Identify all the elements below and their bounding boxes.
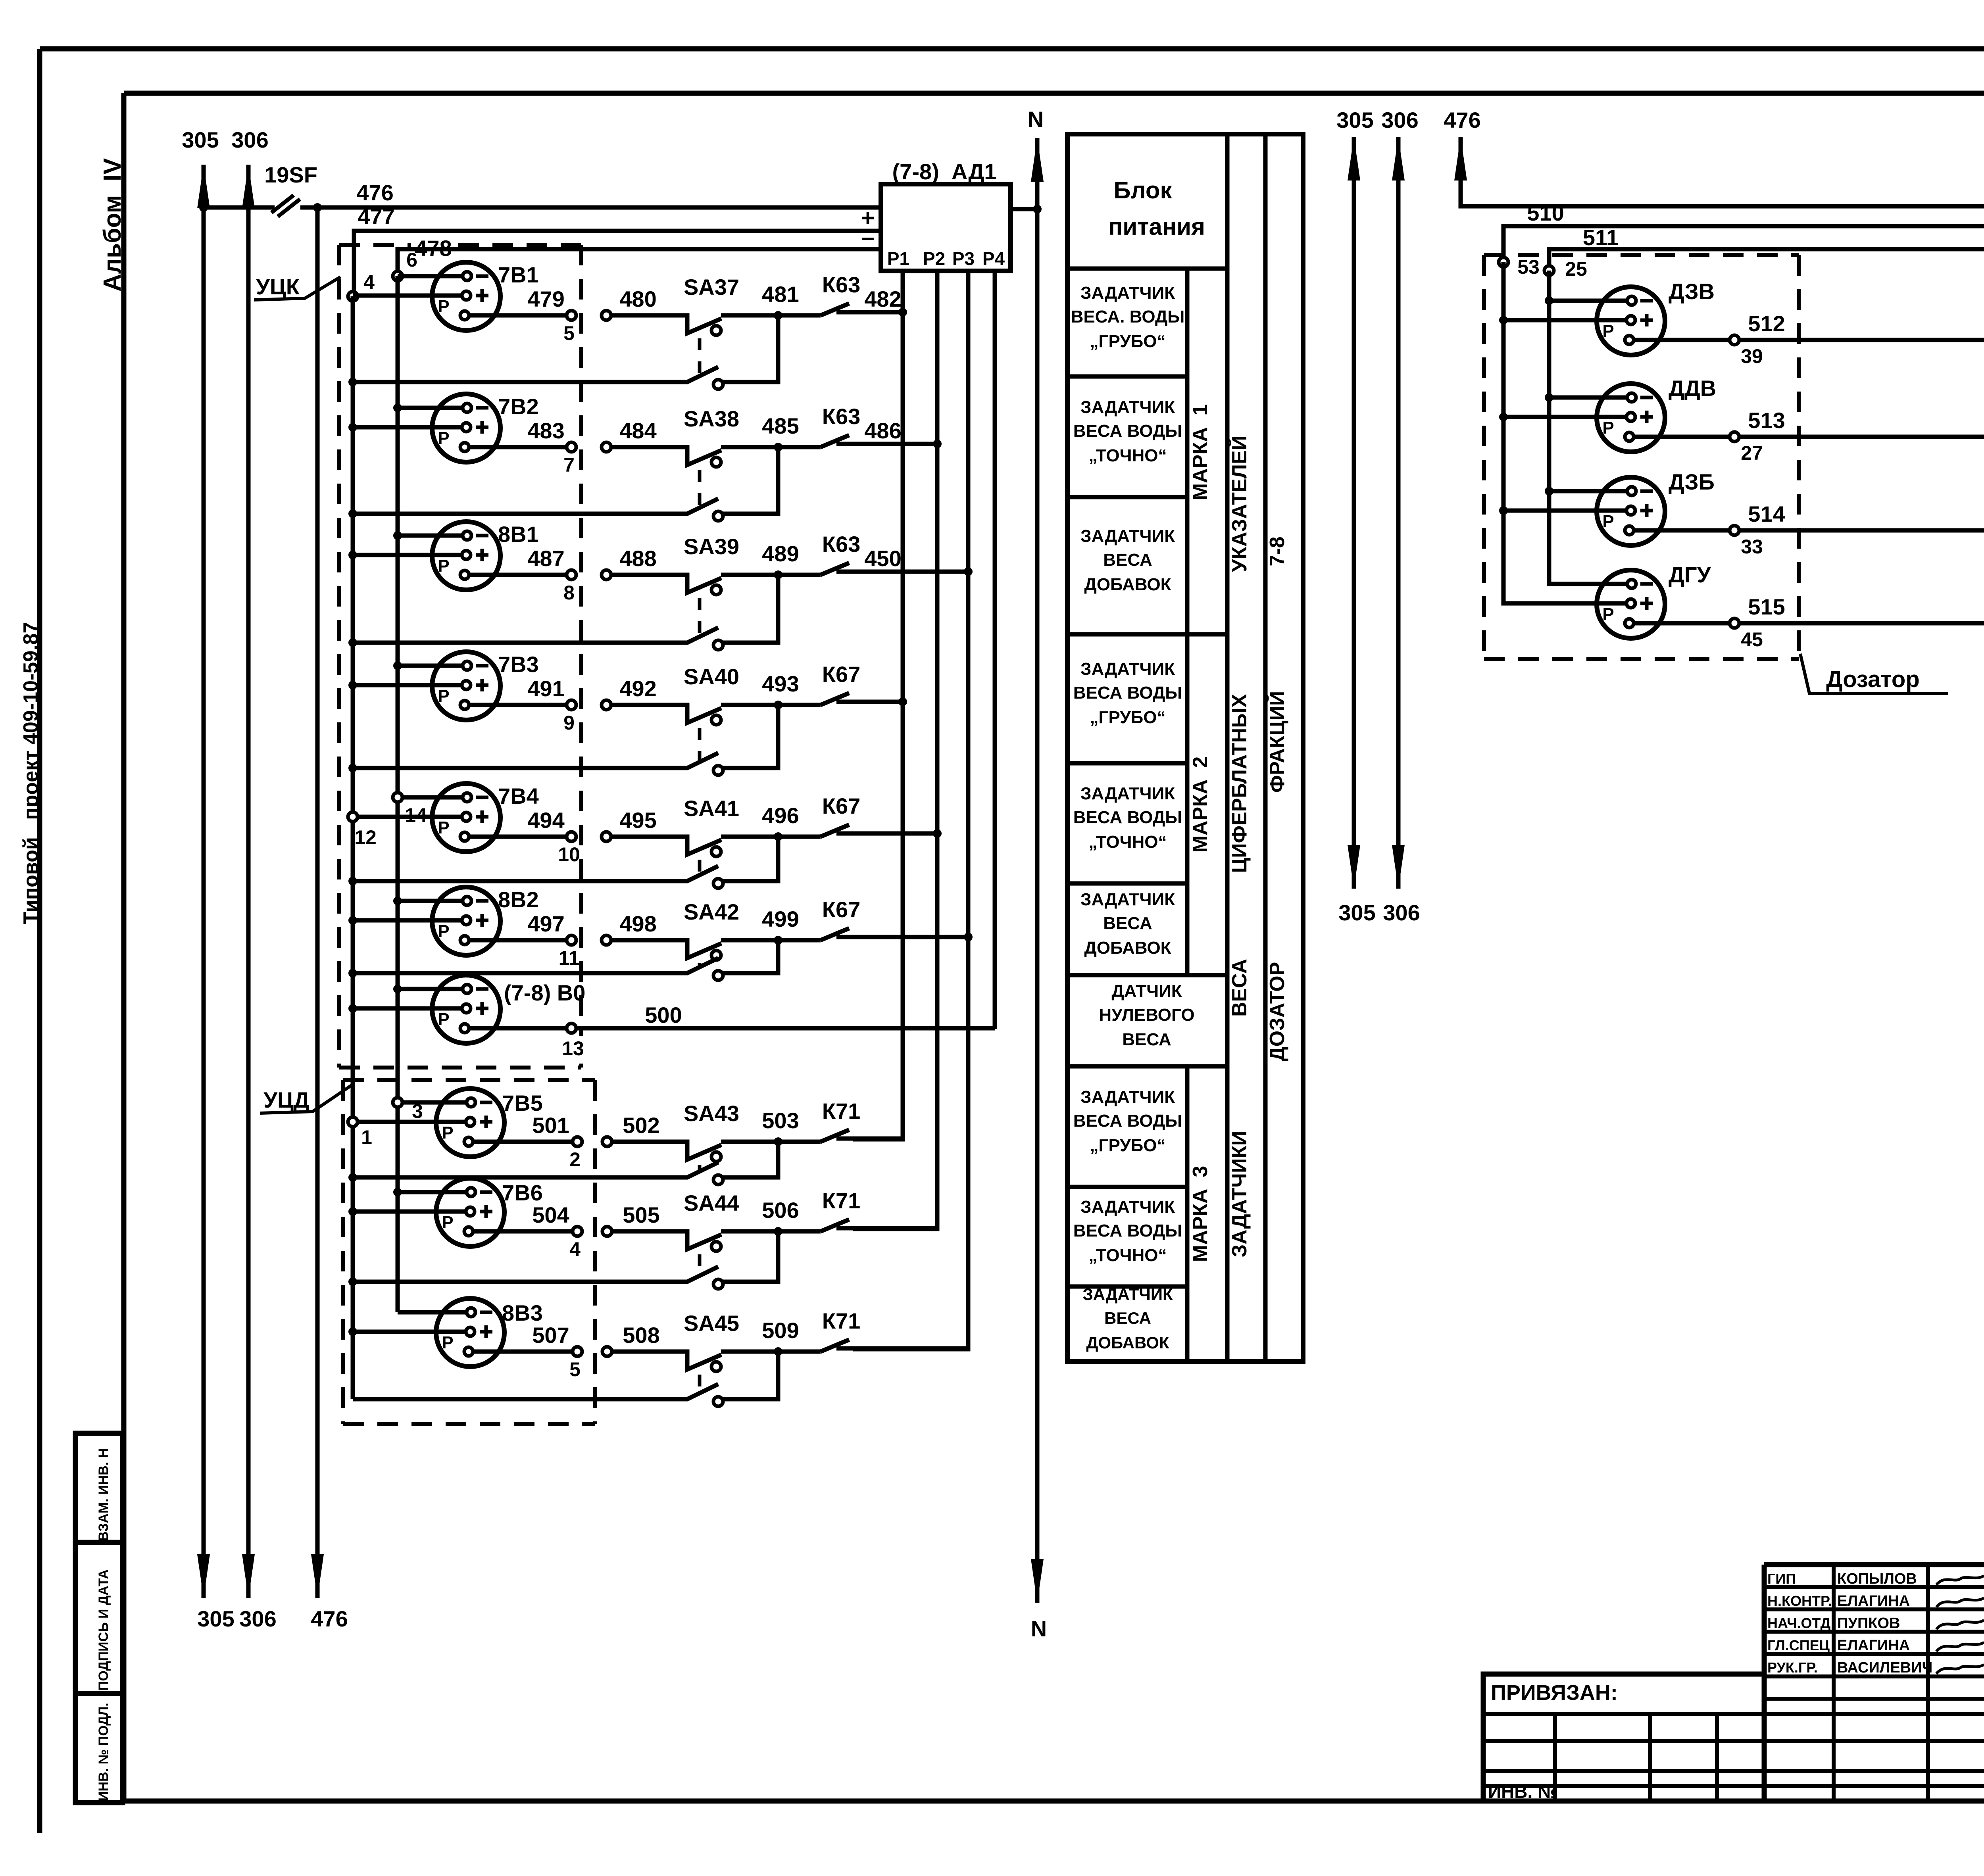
wire 492 [602,676,657,710]
svg-text:МАРКА 1: МАРКА 1 [1189,404,1212,501]
svg-text:ДОБАВОК: ДОБАВОК [1084,575,1171,594]
svg-text:Р: Р [438,818,449,837]
wire &#1050;71 output to P line [854,1226,937,1231]
wire plus of 7&#1042;2 [353,425,462,430]
svg-text:500: 500 [645,1002,682,1027]
wire &#1050;63 output to P line [854,570,968,574]
svg-text:–: – [861,224,874,250]
wire 515 (&#1044;&#1043;&#1059; P to AD2) [1634,273,1984,651]
wire &#1050;71 output to P line [854,1346,968,1351]
svg-text:492: 492 [619,676,656,701]
node aux branch 7&#1042;1 [348,378,357,386]
svg-text:К71: К71 [822,1098,860,1123]
svg-text:Р: Р [442,1333,453,1352]
wire plus of 8&#1042;2 [353,918,462,923]
terminal 3 [393,1098,402,1107]
wire 504 (7&#1042;6 P to terminal 4) [473,1202,582,1260]
wire plus of 8&#1042;1 [353,553,462,557]
svg-text:ДОЗАТОР: ДОЗАТОР [1266,962,1289,1062]
wire 305 (left riser) [182,127,234,1631]
svg-text:ВЕСА: ВЕСА [1103,550,1152,570]
svg-text:485: 485 [762,413,799,438]
svg-text:К63: К63 [822,532,860,557]
svg-text:514: 514 [1748,501,1785,526]
svg-text:8В3: 8В3 [502,1300,543,1325]
svg-text:499: 499 [762,906,799,931]
label Dozator with leader [1800,654,1948,693]
svg-text:„ТОЧНО“: „ТОЧНО“ [1088,832,1167,852]
svg-text:К67: К67 [822,897,860,922]
signature table [1764,1565,1984,1801]
wire plus of 8&#1042;3 [353,1330,466,1334]
shield wire 478 / UCK dashed enclosure [339,236,581,1068]
wire minus of 7&#1042;2 [398,406,463,410]
wire plus of &#1044;&#1047;&#1042; [1503,318,1626,323]
wire 501 (7&#1042;5 P to terminal 2) [473,1113,582,1171]
svg-text:ИНВ. № ПОДЛ.: ИНВ. № ПОДЛ. [96,1703,111,1801]
svg-text:Дозатор: Дозатор [1826,666,1920,692]
wire plus of 7&#1042;4 [353,815,462,819]
svg-text:ВЕСА ВОДЫ: ВЕСА ВОДЫ [1073,683,1182,703]
svg-text:SA43: SA43 [684,1101,739,1126]
wire 483 (7&#1042;2 P to terminal 7) [469,418,576,476]
wire minus of &#1044;&#1047;&#1041; [1549,489,1627,493]
wire 306 (left riser) [231,127,276,1631]
switch SA41 upper contact [611,796,777,856]
svg-text:ВЕСА ВОДЫ: ВЕСА ВОДЫ [1073,1221,1182,1240]
svg-text:К63: К63 [822,404,860,429]
node junction 481 [774,311,782,320]
wire 476 (right riser to AD2) [1444,108,1984,206]
switch SA45 upper contact [611,1311,777,1371]
wire 513 (&#1044;&#1044;&#1042; P to AD2) [1634,273,1984,464]
sensor (7-8) &#1042;0 [432,975,585,1043]
svg-text:РУК.ГР.: РУК.ГР. [1767,1659,1818,1676]
svg-text:SA37: SA37 [684,275,739,300]
wire 505 [602,1202,660,1236]
svg-text:ГЛ.СПЕЦ: ГЛ.СПЕЦ [1767,1637,1830,1653]
svg-text:480: 480 [619,286,656,311]
switch SA39 lower contact [353,575,778,650]
wire 494 (7&#1042;4 P to terminal 10) [469,808,580,866]
wire plus of B0 [353,1006,462,1011]
svg-text:ДЗБ: ДЗБ [1669,469,1715,494]
wire 510 [1503,200,1984,262]
svg-text:ДГУ: ДГУ [1669,562,1711,587]
svg-text:7В3: 7В3 [498,652,539,677]
switch SA41 mechanical link [698,860,702,876]
switch SA42 mechanical link [698,963,702,968]
switch SA37 lower contact [353,315,778,389]
wire 498 [602,911,657,945]
switch SA42 lower contact [353,940,778,980]
terminal 25 [1544,266,1554,275]
wire minus of &#1044;&#1047;&#1042; [1549,299,1627,303]
privyazan area [1483,1681,1984,1802]
wire plus of 7&#1042;6 [353,1210,466,1214]
wire 487 (8&#1042;1 P to terminal 8) [469,546,576,604]
svg-text:ЗАДАТЧИК: ЗАДАТЧИК [1080,784,1175,803]
svg-text:515: 515 [1748,594,1785,619]
svg-text:Р: Р [442,1123,453,1142]
svg-text:НАЧ.ОТД: НАЧ.ОТД [1767,1615,1830,1631]
unit AD1 [861,159,1011,271]
title block outline [1483,1565,1984,1801]
svg-text:502: 502 [623,1113,659,1138]
wire &#1050;67 output to P line [854,935,968,939]
switch SA37 mechanical link [698,338,702,376]
svg-text:SA40: SA40 [684,664,739,689]
svg-text:ЕЛАГИНА: ЕЛАГИНА [1837,1593,1910,1609]
bus A vertical (sensor + feed) [351,296,355,1399]
wire 508 [602,1323,660,1356]
node aux branch 7&#1042;6 [348,1277,357,1286]
terminal 53 [1499,257,1508,267]
svg-text:305: 305 [1338,900,1375,925]
wire 476 horizontal bus [204,180,881,207]
svg-text:511: 511 [1583,225,1619,250]
switch SA39 mechanical link [698,598,702,637]
sensor 7&#1042;6 [436,1178,543,1246]
svg-text:19SF: 19SF [264,162,317,187]
svg-text:Р: Р [442,1213,453,1232]
svg-text:486: 486 [864,418,901,443]
wire 484 [602,418,657,452]
svg-text:33: 33 [1741,536,1763,558]
wire minus of 8&#1042;3 [398,1310,467,1315]
terminal 1 [348,1117,358,1127]
node aux branch 7&#1042;5 [348,1173,357,1182]
svg-text:8: 8 [563,582,575,604]
node junction 496 [774,832,782,841]
wire AD1 to N [1011,207,1037,211]
wire minus of 7&#1042;4 [398,795,463,800]
svg-text:ВЕСА: ВЕСА [1104,1309,1151,1327]
wire 500 (B0 P to P4) [469,1002,995,1060]
node junction 493 [774,701,782,709]
switch SA45 lower contact [353,1352,778,1406]
svg-text:482: 482 [864,286,901,311]
contact &#1050;63 [778,532,860,575]
svg-text:5: 5 [569,1358,581,1381]
wire minus of 7&#1042;1 [398,274,463,278]
wire 495 [602,808,657,841]
wire &#1050;67 output to P line [854,831,937,836]
svg-text:ЗАДАТЧИК: ЗАДАТЧИК [1080,526,1175,546]
svg-text:476: 476 [356,180,393,205]
svg-text:495: 495 [619,808,656,833]
svg-text:306: 306 [239,1606,276,1631]
switch SA43 lower contact [353,1142,778,1185]
svg-text:„ГРУБО“: „ГРУБО“ [1090,708,1166,727]
switch SA42 upper contact [611,899,777,960]
svg-text:ЗАДАТЧИК: ЗАДАТЧИК [1080,1087,1175,1107]
svg-text:питания: питания [1108,213,1205,240]
svg-text:Н.КОНТР.: Н.КОНТР. [1767,1593,1832,1609]
terminal 12 [348,812,358,822]
svg-text:507: 507 [532,1323,569,1348]
switch SA44 lower contact [353,1231,778,1289]
svg-text:13: 13 [562,1037,584,1060]
svg-text:39: 39 [1741,345,1763,367]
wire minus of 7&#1042;6 [398,1190,467,1194]
contact &#1050;63 [778,272,860,315]
wire plus of &#1044;&#1043;&#1059; [1503,603,1626,603]
svg-text:306: 306 [231,127,268,152]
bus 510 vertical (right, + feed) [1501,262,1506,603]
wire minus of 7&#1042;3 [398,664,463,668]
UCD dashed enclosure [343,1080,595,1424]
svg-text:Р: Р [438,428,449,448]
svg-text:5: 5 [563,322,575,344]
contact &#1050;67 [778,897,860,940]
svg-text:481: 481 [762,282,799,307]
label UCD with leader [260,1084,353,1113]
svg-text:306: 306 [1383,900,1420,925]
svg-text:К67: К67 [822,793,860,818]
svg-text:SA39: SA39 [684,534,739,559]
node junction 489 [774,570,782,579]
svg-text:SA44: SA44 [684,1191,739,1215]
wire plus of &#1044;&#1047;&#1041; [1503,509,1626,513]
svg-text:4: 4 [569,1238,581,1260]
svg-text:504: 504 [532,1202,569,1227]
wire &#1050;71 output to P line [854,1137,903,1141]
svg-text:Р: Р [1602,605,1614,624]
svg-text:487: 487 [527,546,564,571]
svg-text:ЗАДАТЧИК: ЗАДАТЧИК [1080,1197,1175,1217]
svg-text:ВЕСА: ВЕСА [1122,1030,1171,1049]
wire 514 (&#1044;&#1047;&#1041; P to AD2) [1634,273,1984,558]
node junction 506 [774,1227,782,1236]
svg-text:ЦИФЕРБЛАТНЫХ: ЦИФЕРБЛАТНЫХ [1228,694,1251,873]
svg-text:Р: Р [1602,418,1614,438]
svg-text:27: 27 [1741,442,1763,464]
svg-text:476: 476 [311,1606,348,1631]
svg-text:ЗАДАТЧИКИ: ЗАДАТЧИКИ [1228,1131,1251,1258]
svg-text:2: 2 [569,1148,581,1171]
svg-text:501: 501 [532,1113,569,1138]
wire P4 vertical (to B0 500) [993,271,997,1029]
node aux branch 7&#1042;3 [348,764,357,772]
node: 476 taps wire 305 [199,203,208,212]
svg-text:10: 10 [558,843,580,866]
svg-text:ПОДПИСЬ И ДАТА: ПОДПИСЬ И ДАТА [96,1569,111,1691]
terminal 4 [348,292,358,301]
label UCK with leader [254,274,340,300]
svg-text:7В4: 7В4 [498,783,539,808]
svg-text:11: 11 [559,947,580,969]
sensor 7&#1042;2 [432,394,539,462]
svg-text:ЗАДАТЧИК: ЗАДАТЧИК [1082,1285,1173,1304]
svg-text:ЗАДАТЧИК: ЗАДАТЧИК [1080,283,1175,303]
svg-text:ЗАДАТЧИК: ЗАДАТЧИК [1080,659,1175,679]
contact &#1050;63 [778,404,860,447]
sensor 8&#1042;1 [432,522,539,590]
dozator dashed enclosure [1484,255,1799,659]
svg-text:7В2: 7В2 [498,394,539,419]
bus B vertical (sensor - feed) [396,276,400,1312]
svg-text:7В6: 7В6 [502,1180,543,1205]
wire P3 vertical [853,271,968,1349]
wire plus of 7&#1042;3 [353,683,462,687]
svg-text:ДАТЧИК: ДАТЧИК [1111,981,1182,1001]
svg-text:ВЕСА. ВОДЫ: ВЕСА. ВОДЫ [1071,307,1185,326]
svg-text:ВЕСА ВОДЫ: ВЕСА ВОДЫ [1073,1111,1182,1131]
svg-text:N: N [1028,107,1044,132]
svg-text:Р4: Р4 [982,248,1005,269]
sensor &#1044;&#1044;&#1042; [1597,376,1716,452]
svg-text:8В1: 8В1 [498,522,539,547]
terminal 6 [393,271,402,281]
svg-text:Типовой проект 409-10-59.87: Типовой проект 409-10-59.87 [19,622,42,924]
svg-text:ДДВ: ДДВ [1669,376,1716,401]
svg-text:Р: Р [438,686,449,706]
svg-text:ВЕСА ВОДЫ: ВЕСА ВОДЫ [1073,808,1182,827]
wire 502 [602,1113,660,1146]
svg-text:12: 12 [354,826,377,849]
wire minus of B0 [398,987,463,991]
svg-text:Р1: Р1 [887,248,909,269]
svg-text:Р: Р [438,922,449,941]
svg-text:ФРАКЦИЙ: ФРАКЦИЙ [1265,691,1289,793]
svg-text:ВАСИЛЕВИЧ: ВАСИЛЕВИЧ [1837,1659,1932,1676]
sensor 7&#1042;1 [432,262,539,330]
wire minus of &#1044;&#1043;&#1059; [1549,583,1627,584]
svg-text:„ГРУБО“: „ГРУБО“ [1090,1136,1166,1155]
svg-text:Альбом IV: Альбом IV [99,158,126,292]
switch SA44 upper contact [611,1191,777,1251]
switch SA38 lower contact [353,447,778,521]
wire 488 [602,546,657,580]
wire from terminal 6 to AD1 minus [398,249,881,274]
switch SA40 lower contact [353,705,778,775]
wire 477 bus [354,204,881,296]
svg-text:ИНВ. №: ИНВ. № [1488,1781,1558,1802]
switch SA38 upper contact [611,406,777,467]
svg-text:488: 488 [619,546,656,571]
margin stamp boxes (vzam/podpis/inv) [75,1433,123,1803]
svg-text:505: 505 [623,1202,659,1227]
svg-text:498: 498 [619,911,656,936]
wire minus of &#1044;&#1044;&#1042; [1549,396,1627,400]
svg-text:305: 305 [182,127,219,152]
svg-text:503: 503 [762,1108,799,1133]
svg-text:ВЕСА: ВЕСА [1103,914,1152,933]
svg-text:УЦД: УЦД [263,1087,310,1112]
sensor 8&#1042;3 [436,1298,543,1367]
switch SA40 upper contact [611,664,777,725]
svg-text:Блок: Блок [1113,177,1172,204]
wire 497 (8&#1042;2 P to terminal 11) [469,911,579,969]
switch SA39 upper contact [611,534,777,595]
sensor &#1044;&#1043;&#1059; [1597,562,1711,638]
node aux branch 7&#1042;4 [348,877,357,885]
svg-text:ДОБАВОК: ДОБАВОК [1086,1333,1169,1352]
wire 306 (right riser) [1381,108,1420,925]
svg-text:(7-8) В0: (7-8) В0 [504,980,585,1005]
sensor 7&#1042;5 [436,1089,543,1157]
svg-text:МАРКА 2: МАРКА 2 [1189,757,1212,853]
svg-text:25: 25 [1565,258,1587,280]
switch SA43 mechanical link [698,1165,702,1172]
wire P1 vertical [853,271,903,1139]
svg-text:SA41: SA41 [684,796,739,821]
svg-text:306: 306 [1381,108,1418,132]
switch SA40 mechanical link [698,728,702,762]
svg-text:К71: К71 [822,1188,860,1213]
svg-text:450: 450 [864,546,901,571]
wire 305 (right riser) [1336,108,1375,925]
neutral line N (left) [1028,107,1047,1641]
svg-text:477: 477 [358,204,394,229]
svg-text:SA45: SA45 [684,1311,739,1336]
node junction 499 [774,936,782,945]
svg-text:Р: Р [1602,512,1614,531]
svg-text:ДЗВ: ДЗВ [1669,279,1715,304]
svg-text:7В5: 7В5 [502,1091,543,1116]
signature table texts [1767,1571,1984,1676]
switch 19SF [264,162,317,217]
svg-text:512: 512 [1748,311,1785,336]
svg-text:493: 493 [762,671,799,696]
svg-text:491: 491 [527,676,564,701]
sensor 7&#1042;4 [432,783,539,852]
wire 479 (7&#1042;1 P to terminal 5) [469,286,576,344]
node: junction 476 drop [313,203,322,212]
terminal 14 [393,793,402,802]
contact &#1050;71 [778,1188,860,1231]
switch SA43 upper contact [611,1101,777,1162]
svg-text:513: 513 [1748,408,1785,433]
wire &#1050;67 output to P line [854,700,903,704]
legend table (left) [1067,134,1303,1361]
svg-text:ВЕСА ВОДЫ: ВЕСА ВОДЫ [1073,421,1182,441]
svg-text:489: 489 [762,541,799,566]
svg-text:ДОБАВОК: ДОБАВОК [1084,938,1171,958]
svg-text:ГИП: ГИП [1767,1571,1796,1587]
svg-text:ЗАДАТЧИК: ЗАДАТЧИК [1080,397,1175,417]
svg-text:478: 478 [415,236,452,261]
svg-text:508: 508 [623,1323,659,1348]
wire &#1050;63 output to P line [854,442,937,446]
contact &#1050;71 [778,1308,860,1352]
svg-text:„ГРУБО“: „ГРУБО“ [1090,332,1166,351]
svg-text:484: 484 [619,418,656,443]
svg-text:7-8: 7-8 [1266,536,1289,566]
switch SA37 upper contact [611,275,777,335]
svg-text:45: 45 [1741,628,1763,651]
svg-text:Р: Р [1602,321,1614,341]
bus 511 vertical (right, - feed) [1547,271,1551,583]
node aux branch 7&#1042;2 [348,509,357,518]
svg-text:497: 497 [527,911,564,936]
contact &#1050;67 [778,793,860,837]
svg-text:7: 7 [563,454,575,476]
svg-text:Р: Р [438,297,449,316]
svg-text:483: 483 [527,418,564,443]
svg-text:„ТОЧНО“: „ТОЧНО“ [1088,446,1167,465]
svg-text:496: 496 [762,803,799,828]
switch SA45 mechanical link [698,1375,702,1394]
node aux branch 8&#1042;1 [348,638,357,647]
svg-text:УКАЗАТЕЛЕЙ: УКАЗАТЕЛЕЙ [1228,436,1251,572]
svg-text:ВЗАМ. ИНВ. Н: ВЗАМ. ИНВ. Н [96,1448,111,1541]
wire 512 (&#1044;&#1047;&#1042; P to AD2) [1634,273,1984,367]
wire 491 (7&#1042;3 P to terminal 9) [469,676,576,734]
svg-text:53: 53 [1517,256,1540,278]
svg-text:НУЛЕВОГО: НУЛЕВОГО [1099,1005,1194,1025]
